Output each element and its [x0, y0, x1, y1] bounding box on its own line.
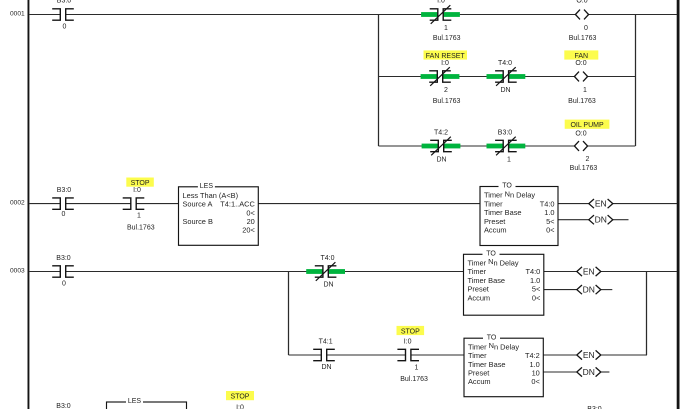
- svg-text:T4:0: T4:0: [540, 199, 555, 208]
- svg-text:10: 10: [532, 369, 540, 378]
- svg-text:STOP: STOP: [401, 328, 420, 335]
- svg-text:EN: EN: [583, 266, 595, 276]
- svg-text:2: 2: [586, 156, 590, 163]
- svg-text:Timer Base: Timer Base: [468, 276, 506, 285]
- svg-text:DN: DN: [323, 281, 333, 288]
- svg-text:Preset: Preset: [468, 285, 489, 294]
- svg-text:1: 1: [137, 213, 141, 220]
- svg-text:T4:2: T4:2: [434, 130, 448, 137]
- svg-text:DN: DN: [321, 364, 331, 371]
- svg-text:T4:1: T4:1: [319, 338, 333, 345]
- svg-text:Bul.1763: Bul.1763: [400, 376, 428, 383]
- svg-text:STOP: STOP: [231, 393, 250, 400]
- svg-text:Timer: Timer: [468, 351, 487, 360]
- svg-text:Bul.1763: Bul.1763: [570, 165, 598, 172]
- svg-text:1: 1: [507, 156, 511, 163]
- svg-text:Bul.1763: Bul.1763: [433, 98, 461, 105]
- svg-text:Less Than (A<B): Less Than (A<B): [183, 191, 239, 200]
- svg-text:O:0: O:0: [575, 60, 586, 67]
- svg-text:B3:0: B3:0: [57, 0, 72, 5]
- svg-text:0<: 0<: [532, 293, 540, 302]
- svg-text:Source B: Source B: [183, 217, 213, 226]
- svg-text:T4:0: T4:0: [526, 267, 541, 276]
- svg-text:Preset: Preset: [484, 217, 505, 226]
- svg-text:1: 1: [415, 364, 419, 371]
- svg-text:20: 20: [247, 217, 255, 226]
- svg-text:I:0: I:0: [133, 187, 141, 194]
- svg-text:0: 0: [62, 281, 66, 288]
- svg-text:5<: 5<: [546, 217, 554, 226]
- svg-text:0002: 0002: [10, 200, 25, 207]
- svg-text:Timer Nn Delay: Timer Nn Delay: [484, 189, 535, 199]
- svg-text:5<: 5<: [532, 285, 540, 294]
- svg-text:1.0: 1.0: [530, 360, 540, 369]
- svg-text:FAN: FAN: [574, 53, 588, 60]
- svg-text:2: 2: [444, 87, 448, 94]
- svg-text:Timer: Timer: [468, 267, 487, 276]
- svg-text:0: 0: [584, 25, 588, 32]
- svg-text:B3:0: B3:0: [57, 187, 72, 194]
- svg-text:Bul.1763: Bul.1763: [569, 35, 597, 42]
- svg-text:Accum: Accum: [468, 293, 491, 302]
- svg-text:Bul.1763: Bul.1763: [568, 98, 596, 105]
- svg-text:1.0: 1.0: [544, 208, 554, 217]
- svg-text:Bul.1763: Bul.1763: [127, 224, 155, 231]
- svg-text:DN: DN: [436, 156, 446, 163]
- svg-text:0: 0: [62, 211, 66, 218]
- svg-text:Timer Nn Delay: Timer Nn Delay: [468, 341, 519, 351]
- svg-text:Preset: Preset: [468, 369, 489, 378]
- svg-text:O:0: O:0: [575, 130, 586, 137]
- svg-text:0<: 0<: [546, 226, 554, 235]
- svg-text:STOP: STOP: [131, 180, 150, 187]
- svg-text:T4:2: T4:2: [525, 351, 540, 360]
- svg-text:T4:0: T4:0: [498, 60, 512, 67]
- svg-text:1: 1: [444, 25, 448, 32]
- svg-text:Accum: Accum: [468, 377, 491, 386]
- svg-text:T4:1..ACC: T4:1..ACC: [220, 200, 255, 209]
- svg-text:T4:0: T4:0: [320, 255, 334, 262]
- svg-text:DN: DN: [583, 285, 595, 295]
- svg-text:0003: 0003: [10, 268, 25, 275]
- svg-text:B3:0: B3:0: [56, 255, 71, 262]
- svg-text:0<: 0<: [531, 377, 539, 386]
- svg-text:Timer: Timer: [484, 199, 503, 208]
- svg-text:Timer Base: Timer Base: [468, 360, 506, 369]
- svg-text:Bul.1763: Bul.1763: [433, 35, 461, 42]
- svg-text:OIL PUMP: OIL PUMP: [570, 122, 604, 129]
- svg-text:FAN RESET: FAN RESET: [426, 53, 466, 60]
- svg-text:EN: EN: [583, 350, 595, 360]
- svg-text:1.0: 1.0: [530, 276, 540, 285]
- svg-text:O:0: O:0: [576, 0, 587, 5]
- svg-text:I:0: I:0: [236, 404, 244, 409]
- svg-text:LES: LES: [128, 398, 142, 405]
- svg-text:DN: DN: [595, 215, 607, 225]
- svg-text:0: 0: [63, 24, 67, 31]
- svg-text:I:0: I:0: [404, 338, 412, 345]
- svg-text:EN: EN: [595, 199, 607, 209]
- svg-text:Source A: Source A: [183, 200, 213, 209]
- svg-text:DN: DN: [583, 367, 595, 377]
- svg-text:DN: DN: [500, 87, 510, 94]
- svg-text:Accum: Accum: [484, 226, 507, 235]
- svg-text:I:0: I:0: [437, 0, 445, 5]
- svg-text:LES: LES: [200, 183, 214, 190]
- svg-text:20<: 20<: [242, 226, 255, 235]
- svg-text:I:0: I:0: [441, 60, 449, 67]
- svg-text:Timer Base: Timer Base: [484, 208, 522, 217]
- svg-text:0<: 0<: [246, 208, 254, 217]
- svg-text:B3:0: B3:0: [56, 403, 71, 409]
- svg-text:Timer Nn Delay: Timer Nn Delay: [468, 257, 519, 267]
- svg-text:1: 1: [583, 87, 587, 94]
- svg-text:B3:0: B3:0: [498, 130, 513, 137]
- svg-text:0001: 0001: [10, 11, 25, 18]
